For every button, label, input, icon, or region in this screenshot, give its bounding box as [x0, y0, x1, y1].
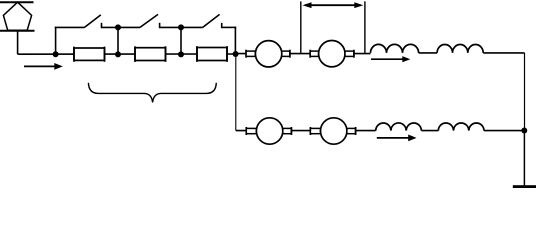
resistor R2: [135, 46, 166, 62]
overhead contact wire: [0, 1, 34, 3]
wire: right vertical down to ground node: [523, 53, 525, 186]
motor M3 brush tick left: [245, 127, 247, 135]
junction dot node B lower: [115, 51, 121, 57]
brace (starting resistors group): [88, 83, 216, 103]
wire: between L3 and L4: [421, 130, 438, 132]
motor M2 brush box right: [345, 51, 354, 56]
wire: bottom branch horizontal to L3: [236, 130, 376, 132]
junction dot ground node: [521, 128, 527, 134]
current arrow I (line current): [24, 63, 63, 70]
junction dot node D (branch split): [233, 51, 239, 57]
motor M2 brush tick right: [353, 50, 355, 58]
switch S3 fixed contact tick: [221, 23, 223, 28]
dimension extension line right: [364, 1, 366, 53]
motor M3 brush box right: [283, 128, 292, 133]
switch S1 blade: [85, 15, 101, 28]
wire: branch split vertical down to bottom branch: [235, 54, 237, 131]
wire: switch rail segment S2 contact to S3 pivot: [160, 26, 203, 28]
motor M2 armature circle: [319, 41, 345, 67]
motor M4 brush tick right: [355, 127, 357, 135]
inductor L1 (3 humps): [371, 44, 419, 53]
inductor L2 (3 humps): [437, 44, 483, 52]
wire: switch rail segment to S1 pivot: [55, 26, 85, 28]
wire: right switch rail drop to node D: [234, 27, 236, 54]
motor M3 brush box left: [246, 128, 256, 133]
wire: between L1 and L2: [419, 52, 438, 54]
motor M1 armature circle: [255, 41, 281, 67]
wire: main horizontal line from pantograph to branch split: [18, 53, 237, 55]
junction dot on switch rail at node B: [115, 24, 121, 30]
resistor R3: [197, 46, 227, 62]
junction dot node A: [53, 51, 59, 57]
resistor R1: [74, 47, 105, 62]
current arrow top branch: [371, 56, 410, 62]
switch S2 blade: [140, 14, 158, 27]
current arrow bottom branch: [377, 135, 417, 142]
wire: riser from node A up to switch rail: [55, 27, 57, 55]
wire: after L4 to ground node: [484, 130, 525, 132]
motor M1 brush tick left: [245, 50, 247, 58]
pantograph PS1: [3, 2, 31, 30]
wire: pantograph stem down: [17, 31, 19, 54]
wire: riser node B: [117, 27, 119, 54]
junction dot node C lower: [178, 51, 184, 57]
dimension double arrow: [303, 2, 364, 8]
switch S1 fixed contact tick: [101, 23, 103, 28]
wire: top branch to right edge corner: [483, 52, 524, 54]
motor M4 armature circle: [321, 118, 347, 144]
switch S3 blade: [203, 14, 220, 27]
wire: riser node C: [180, 27, 182, 54]
motor M1 brush box right: [282, 51, 290, 56]
dimension extension line left: [300, 1, 302, 53]
wire: top branch horizontal: [236, 53, 371, 55]
motor M2 brush box left: [310, 51, 318, 56]
motor M4 brush box right: [347, 128, 356, 133]
ground (rail/earth bar): [513, 185, 536, 188]
motor M1 brush box left: [246, 51, 255, 56]
inductor L4 (3 humps): [438, 123, 484, 131]
motor M1 brush tick right: [289, 50, 291, 58]
motor M4 brush box left: [310, 128, 320, 133]
motor M2 brush tick left: [309, 50, 311, 58]
motor M3 brush tick right: [290, 127, 292, 135]
inductor L3 (3 humps): [376, 123, 422, 131]
junction dot on switch rail at node C: [178, 24, 184, 30]
motor M3 armature circle: [256, 118, 282, 144]
wire: switch rail segment S3 contact to right corner: [222, 26, 237, 28]
wire: switch rail segment S1 contact to S2 pivot: [102, 26, 141, 28]
roof/base line of pantograph: [0, 30, 35, 32]
motor M4 brush tick left: [309, 127, 311, 135]
switch S2 fixed contact tick: [159, 23, 161, 28]
